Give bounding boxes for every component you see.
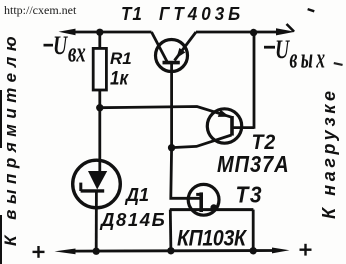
scan edge artifact left top — [0, 90, 2, 148]
speck right margin — [334, 62, 343, 66]
svg-text:http://cxem.net: http://cxem.net — [4, 3, 77, 17]
wire T2 base — [233, 126, 254, 129]
transistor T1 — [152, 32, 197, 72]
node Uout arrow (points right) — [276, 28, 295, 35]
T1 emitter arrow — [176, 48, 185, 58]
rail arrow left (points left) — [55, 249, 76, 255]
wire T3 left lead down to rail — [169, 210, 172, 251]
plus sign bottom right — [300, 244, 312, 256]
svg-text:1к: 1к — [110, 68, 129, 89]
transistor T3 (JFET) — [188, 184, 219, 215]
wire R1 node down to D1 anode — [98, 108, 101, 172]
node Uin arrow (top left, points left) — [59, 29, 76, 36]
wire top-right horizontal — [196, 31, 280, 34]
svg-text:МП37А: МП37А — [217, 150, 290, 177]
wire T3 source/drain line — [170, 208, 254, 211]
wire T1 base down — [170, 64, 173, 149]
wire R1 to T2 collector — [100, 107, 232, 118]
node junction R1 top — [96, 29, 103, 36]
node junction T3right-rail — [250, 247, 257, 254]
node junction Uout — [250, 29, 257, 36]
plus sign bottom left — [33, 246, 45, 258]
svg-text:К нагрузке: К нагрузке — [319, 87, 339, 219]
svg-text:КП103К: КП103К — [177, 226, 248, 251]
scan edge artifact left bottom — [0, 215, 2, 264]
label -Uvyx — [264, 35, 328, 74]
svg-text:вх: вх — [68, 38, 86, 69]
node A junction — [168, 144, 175, 151]
bottom rail wire — [73, 249, 275, 252]
svg-text:R1: R1 — [110, 49, 132, 68]
transistor T2 — [207, 109, 241, 143]
svg-text:U: U — [275, 35, 290, 65]
wire top-left horizontal — [73, 31, 152, 34]
svg-text:Т3: Т3 — [236, 182, 263, 208]
D1 cathode bar with hook — [81, 189, 105, 192]
svg-text:Д1: Д1 — [124, 185, 149, 205]
rail arrow right (points right) — [272, 248, 290, 254]
resistor R1 — [98, 34, 101, 49]
svg-text:Д814Б: Д814Б — [99, 209, 166, 230]
svg-text:Т1: Т1 — [121, 3, 143, 24]
node junction R1 bottom — [96, 104, 103, 111]
svg-text:ГТ403Б: ГТ403Б — [159, 3, 244, 24]
wire Uout node down to T2 base — [253, 33, 256, 129]
D1 anode triangle — [88, 171, 107, 190]
label -Uvx — [44, 31, 86, 68]
wire T2 emitter to node A — [172, 135, 232, 148]
svg-text:U: U — [53, 31, 68, 61]
node dot inside T3 — [210, 204, 217, 211]
wire T3 right lead down to rail — [252, 210, 255, 251]
svg-text:вых: вых — [290, 44, 329, 75]
node junction D1-rail — [93, 248, 100, 255]
zener diode D1 — [73, 160, 121, 208]
svg-text:К выпрямителю: К выпрямителю — [1, 31, 20, 246]
T2 arrow — [218, 110, 230, 117]
node junction T3left-rail — [167, 247, 174, 254]
speck top right — [307, 8, 314, 12]
wire D1 cathode down to rail — [95, 192, 98, 251]
wire node A down to T3 gate — [171, 148, 200, 199]
